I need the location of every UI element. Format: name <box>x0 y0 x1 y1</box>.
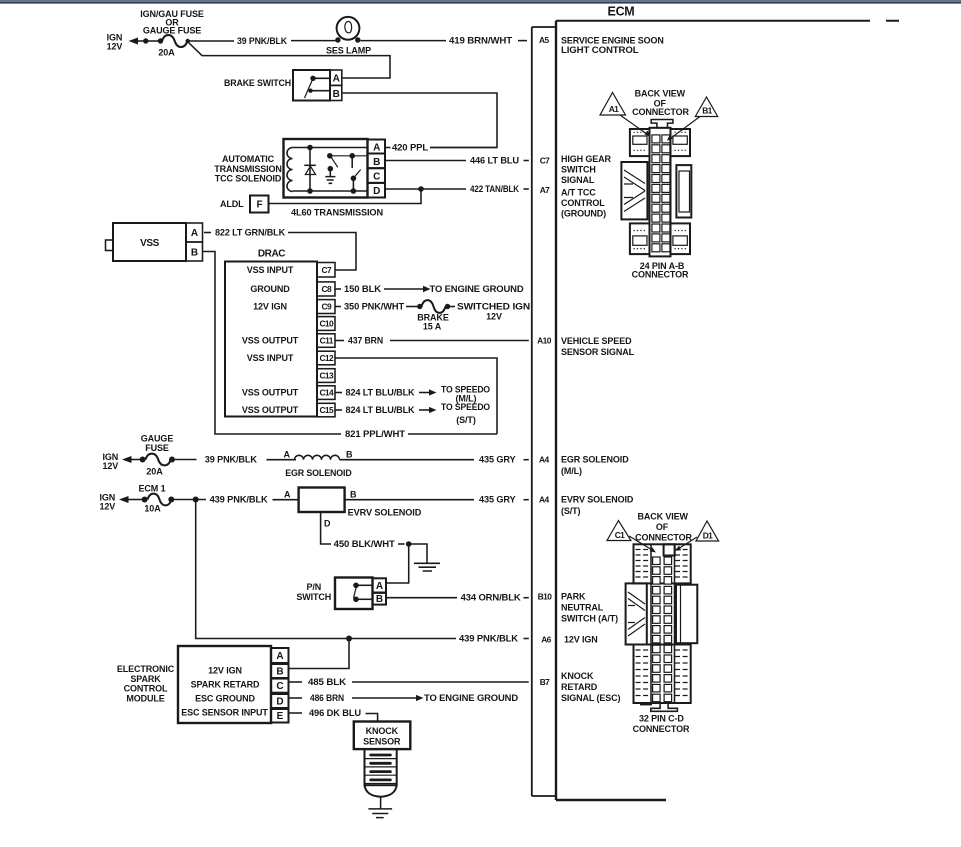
svg-text:B10: B10 <box>538 592 553 602</box>
upper right lock block <box>671 129 691 156</box>
svg-text:GROUND: GROUND <box>250 284 290 294</box>
svg-text:B: B <box>276 667 283 678</box>
TCC internal B rail <box>333 155 368 157</box>
svg-text:824 LT BLU/BLK: 824 LT BLU/BLK <box>346 405 416 415</box>
fuse BRAKE 15A <box>417 304 422 309</box>
svg-text:C7: C7 <box>540 156 550 166</box>
callout triangle C1 <box>607 521 631 541</box>
svg-text:A/T TCC: A/T TCC <box>561 188 596 198</box>
P/N pin B <box>373 593 387 605</box>
wire fuse to junction <box>174 499 206 501</box>
svg-text:486 BRN: 486 BRN <box>310 693 344 703</box>
svg-text:(GROUND): (GROUND) <box>561 208 606 218</box>
svg-text:TO ENGINE GROUND: TO ENGINE GROUND <box>424 693 519 703</box>
svg-text:C15: C15 <box>319 405 334 415</box>
junction dot A6 row <box>346 636 352 642</box>
svg-text:AUTOMATIC: AUTOMATIC <box>222 154 275 164</box>
wire C12 loop to 821 <box>336 358 498 434</box>
svg-text:EVRV SOLENOID: EVRV SOLENOID <box>561 495 634 505</box>
svg-text:822 LT GRN/BLK: 822 LT GRN/BLK <box>215 227 286 237</box>
svg-text:C8: C8 <box>321 284 331 294</box>
svg-text:BACK VIEW: BACK VIEW <box>637 512 688 522</box>
leader line D1 <box>678 537 697 549</box>
DRAC pin C10 <box>317 317 335 331</box>
ESC pin C <box>271 679 289 693</box>
svg-text:C9: C9 <box>321 302 331 312</box>
EVRV solenoid box <box>299 488 345 513</box>
wire TCC D to A7 <box>386 188 467 190</box>
svg-text:SWITCH: SWITCH <box>296 592 331 602</box>
arrow <box>119 496 129 503</box>
svg-text:PARK: PARK <box>561 592 586 602</box>
svg-text:RETARD: RETARD <box>561 682 598 692</box>
wire fuse to label <box>175 459 197 461</box>
ESC pin A <box>271 648 289 663</box>
TCC pin D <box>368 183 386 198</box>
svg-text:VSS INPUT: VSS INPUT <box>247 353 294 363</box>
svg-text:DRAC: DRAC <box>258 249 285 260</box>
svg-text:ESC GROUND: ESC GROUND <box>195 694 255 704</box>
D tick 486 <box>289 697 302 699</box>
center column (32 pin) <box>651 544 675 703</box>
svg-text:OF: OF <box>656 522 669 532</box>
wire junction to ESC B <box>290 639 350 669</box>
leader line B1 <box>669 117 700 140</box>
wire VSS B to 821 <box>203 252 341 435</box>
wire to EVRV box <box>273 499 299 501</box>
fuse IGN/GAU 20A <box>162 35 187 47</box>
ECM bottom edge <box>556 799 666 801</box>
connector center column <box>650 128 671 257</box>
svg-text:C11: C11 <box>320 336 334 346</box>
tick VSS A <box>204 232 211 234</box>
wire 450 to ground <box>409 544 427 563</box>
svg-text:435 GRY: 435 GRY <box>479 455 516 465</box>
junction dot 422 <box>418 186 424 192</box>
svg-text:D1: D1 <box>703 531 713 541</box>
svg-text:485 BLK: 485 BLK <box>308 677 347 687</box>
C8 tick <box>336 288 342 290</box>
wire 486 BRN to engine ground <box>352 697 416 699</box>
wire EGR to A4 <box>340 459 475 461</box>
svg-text:439 PNK/BLK: 439 PNK/BLK <box>210 494 269 504</box>
svg-text:SWITCH: SWITCH <box>561 165 596 175</box>
svg-text:P/N: P/N <box>306 582 321 592</box>
leader line A1 <box>620 115 649 136</box>
D1 polarizing pin <box>664 544 675 555</box>
svg-text:BACK VIEW: BACK VIEW <box>635 88 686 98</box>
svg-text:435 GRY: 435 GRY <box>479 495 516 505</box>
svg-text:KNOCK: KNOCK <box>366 726 399 736</box>
wire brake switch B to 420 PPL <box>343 93 498 148</box>
svg-text:(S/T): (S/T) <box>456 415 476 425</box>
tick 435 EVRV <box>524 499 529 501</box>
svg-text:TO SPEEDO: TO SPEEDO <box>441 402 490 412</box>
DRAC pin C11 <box>317 334 335 348</box>
svg-text:12V: 12V <box>103 461 119 471</box>
svg-text:SIGNAL: SIGNAL <box>561 175 595 185</box>
svg-text:(S/T): (S/T) <box>561 506 581 516</box>
upper left lock block <box>630 129 650 156</box>
DRAC box <box>225 262 317 417</box>
svg-text:VSS OUTPUT: VSS OUTPUT <box>242 405 299 415</box>
ECM top edge <box>556 20 899 22</box>
svg-text:CONNECTOR: CONNECTOR <box>633 724 690 734</box>
svg-text:B: B <box>350 490 357 500</box>
connector top tab <box>651 120 673 128</box>
svg-text:450 BLK/WHT: 450 BLK/WHT <box>334 539 396 549</box>
svg-text:ALDL: ALDL <box>220 199 244 209</box>
wire fuse to label <box>189 40 234 42</box>
svg-text:SENSOR: SENSOR <box>363 737 401 747</box>
svg-text:A4: A4 <box>539 455 549 465</box>
upper shell with dashed seals <box>634 544 691 583</box>
svg-text:SIGNAL (ESC): SIGNAL (ESC) <box>561 693 621 703</box>
wire EVRV to A4 <box>345 499 474 501</box>
svg-text:446 LT BLU: 446 LT BLU <box>470 155 519 165</box>
svg-text:D: D <box>324 519 331 529</box>
wire TCC A tick <box>386 147 391 149</box>
svg-text:CONTROL: CONTROL <box>561 198 605 208</box>
wire to EGR coil <box>267 459 297 461</box>
tick 419 to A5 <box>518 40 527 42</box>
DRAC pin C14 <box>317 386 335 400</box>
svg-text:ESC SENSOR INPUT: ESC SENSOR INPUT <box>181 708 268 718</box>
svg-text:SES LAMP: SES LAMP <box>326 46 371 56</box>
junction dots row1 <box>143 38 148 43</box>
C11 tick <box>336 340 345 342</box>
VSS pin A <box>186 223 203 242</box>
knock sensor cup <box>365 785 397 797</box>
tick 439 A6 <box>524 638 529 640</box>
svg-text:A1: A1 <box>609 104 619 114</box>
C tick 485 <box>289 681 302 683</box>
svg-text:20A: 20A <box>158 48 175 58</box>
TCC solenoid box <box>284 139 368 198</box>
svg-text:A: A <box>373 142 380 153</box>
mid right wing block <box>676 585 697 644</box>
svg-text:496 DK BLU: 496 DK BLU <box>309 708 361 718</box>
arrow to speedo M/L <box>419 392 429 394</box>
svg-text:SWITCH (A/T): SWITCH (A/T) <box>561 614 618 624</box>
svg-text:15 A: 15 A <box>423 321 442 331</box>
svg-text:EGR SOLENOID: EGR SOLENOID <box>561 455 629 465</box>
svg-text:HIGH GEAR: HIGH GEAR <box>561 154 612 164</box>
svg-text:C1: C1 <box>615 530 625 540</box>
svg-text:350 PNK/WHT: 350 PNK/WHT <box>344 301 405 311</box>
svg-text:B: B <box>191 247 198 258</box>
wire 821 right segment <box>408 433 497 435</box>
ESC pin B <box>271 664 289 678</box>
TCC diode <box>309 148 311 192</box>
tick 446 to C7 <box>524 160 529 162</box>
knock sensor body <box>365 749 397 785</box>
svg-text:GAUGE FUSE: GAUGE FUSE <box>143 26 201 36</box>
svg-text:B: B <box>346 450 353 460</box>
mid right wing block <box>676 165 691 217</box>
wire 437 BRN to A10 <box>390 340 529 342</box>
svg-text:NEUTRAL: NEUTRAL <box>561 603 604 613</box>
svg-text:12V: 12V <box>486 312 502 322</box>
svg-text:E: E <box>277 711 284 722</box>
svg-text:B: B <box>333 89 340 100</box>
top toolbar bar <box>0 0 961 2</box>
wire 422 junction to ALDL F <box>269 189 421 204</box>
arrow <box>122 456 132 463</box>
pin squares (32 pin) <box>653 557 672 702</box>
DRAC pin C7 <box>317 263 335 278</box>
svg-text:KNOCK: KNOCK <box>561 671 594 681</box>
svg-text:MODULE: MODULE <box>126 693 164 703</box>
svg-text:EVRV SOLENOID: EVRV SOLENOID <box>348 508 422 518</box>
lower right lock block <box>671 223 691 254</box>
svg-text:ECM 1: ECM 1 <box>139 484 166 494</box>
svg-text:A: A <box>376 581 383 592</box>
svg-text:CONTROL: CONTROL <box>124 684 168 694</box>
fuse ECM 1 10A <box>142 497 148 503</box>
svg-text:SPARK RETARD: SPARK RETARD <box>191 680 260 690</box>
svg-text:LIGHT CONTROL: LIGHT CONTROL <box>561 45 639 55</box>
DRAC pin C9 <box>317 300 335 314</box>
TCC pin A <box>368 140 386 154</box>
junction dot 450 <box>406 541 412 547</box>
wire EVRV D down <box>321 512 331 544</box>
wire 822 to DRAC C7 <box>288 233 356 271</box>
svg-text:150 BLK: 150 BLK <box>344 284 382 294</box>
callout triangle D1 <box>696 521 719 541</box>
wire TCC B to C7 <box>386 160 467 162</box>
C15 tick <box>336 409 343 411</box>
svg-text:20A: 20A <box>146 466 163 476</box>
svg-text:A: A <box>284 450 291 460</box>
svg-text:A: A <box>276 651 283 662</box>
TCC internal bottom rail <box>293 190 368 192</box>
svg-text:A10: A10 <box>537 336 552 346</box>
svg-text:C13: C13 <box>319 371 334 381</box>
svg-text:437 BRN: 437 BRN <box>348 335 383 345</box>
E tick 496 <box>289 712 302 714</box>
svg-text:VSS OUTPUT: VSS OUTPUT <box>242 388 299 398</box>
ESC pin D <box>271 694 289 708</box>
svg-text:B1: B1 <box>702 106 712 116</box>
svg-text:EGR SOLENOID: EGR SOLENOID <box>285 468 352 478</box>
mid left wing block <box>626 583 647 644</box>
svg-text:F: F <box>256 199 262 210</box>
knock sensor label box <box>354 722 411 750</box>
svg-text:C10: C10 <box>319 319 334 329</box>
svg-text:821 PPL/WHT: 821 PPL/WHT <box>345 429 406 439</box>
svg-text:A6: A6 <box>541 635 551 645</box>
knock sensor ground <box>380 797 382 809</box>
lower shell with dashed seals <box>634 645 691 704</box>
wire 485 BLK to B7 <box>352 681 529 683</box>
svg-text:420 PPL: 420 PPL <box>392 142 429 152</box>
svg-text:12V: 12V <box>107 41 123 51</box>
TCC switch to ground <box>327 153 333 159</box>
svg-text:(M/L): (M/L) <box>561 466 582 476</box>
tick 434 <box>524 597 529 599</box>
TCC pin C <box>368 168 386 183</box>
svg-text:439 PNK/BLK: 439 PNK/BLK <box>459 633 519 643</box>
svg-text:39 PNK/BLK: 39 PNK/BLK <box>205 454 258 464</box>
wire junction down and across to A6 <box>196 500 456 639</box>
svg-text:C7: C7 <box>321 265 331 275</box>
svg-text:GAUGE: GAUGE <box>141 433 174 443</box>
svg-text:12V IGN: 12V IGN <box>208 666 242 676</box>
wire 420 PPL <box>430 147 497 149</box>
svg-text:TCC SOLENOID: TCC SOLENOID <box>215 173 282 183</box>
svg-text:B7: B7 <box>540 677 550 687</box>
svg-text:824 LT BLU/BLK: 824 LT BLU/BLK <box>346 387 416 397</box>
svg-text:10A: 10A <box>144 504 161 514</box>
P/N switch box <box>335 578 373 610</box>
svg-text:VSS INPUT: VSS INPUT <box>247 265 294 275</box>
svg-text:SENSOR SIGNAL: SENSOR SIGNAL <box>561 347 635 357</box>
TCC output switch <box>349 153 355 159</box>
svg-text:D: D <box>276 697 283 708</box>
wire 450 to P/N A <box>386 544 409 583</box>
arrow to IGN 12V <box>129 38 139 45</box>
svg-text:D: D <box>373 186 380 197</box>
fuse GAUGE 20A <box>140 457 146 463</box>
svg-text:A7: A7 <box>540 185 550 195</box>
EGR solenoid coil <box>295 455 340 459</box>
label switched ign 12V <box>450 306 455 308</box>
svg-text:C: C <box>373 172 380 183</box>
C9 tick <box>336 306 342 308</box>
SES lamp <box>337 17 360 40</box>
DRAC pin C13 <box>317 369 335 383</box>
wire lamp to label 419 <box>361 40 447 42</box>
svg-text:12V: 12V <box>100 502 116 512</box>
DRAC pin C15 <box>317 403 335 417</box>
svg-text:4L60 TRANSMISSION: 4L60 TRANSMISSION <box>291 208 383 218</box>
svg-text:A: A <box>284 490 291 500</box>
junction dot 439 <box>193 497 199 503</box>
callout triangle A1 <box>600 93 626 116</box>
ECM left edge <box>555 21 557 800</box>
svg-text:SERVICE ENGINE SOON: SERVICE ENGINE SOON <box>561 36 664 46</box>
svg-text:A: A <box>191 228 198 239</box>
svg-text:TO ENGINE GROUND: TO ENGINE GROUND <box>430 284 525 294</box>
ECM pin strip <box>532 27 556 796</box>
C14 tick <box>336 392 343 394</box>
callout triangle B1 <box>695 97 717 117</box>
ESC module box <box>178 646 271 723</box>
wire 350 to brake fuse <box>406 306 418 308</box>
svg-text:32 PIN C-D: 32 PIN C-D <box>639 714 684 724</box>
svg-text:A5: A5 <box>539 35 549 45</box>
tick 422 to A7 <box>524 188 529 190</box>
svg-text:VSS OUTPUT: VSS OUTPUT <box>242 336 299 346</box>
DRAC pin C12 <box>317 351 335 365</box>
tick 435 EGR <box>524 459 529 461</box>
svg-text:39 PNK/BLK: 39 PNK/BLK <box>237 36 288 46</box>
svg-text:422 TAN/BLK: 422 TAN/BLK <box>470 184 520 194</box>
svg-text:C12: C12 <box>319 353 334 363</box>
leader line C1 <box>629 536 653 551</box>
wire label to lamp <box>291 40 338 42</box>
ground symbol (450) <box>414 563 440 571</box>
P/N pin A <box>373 578 387 592</box>
svg-text:CONNECTOR: CONNECTOR <box>632 269 689 279</box>
svg-text:FUSE: FUSE <box>145 443 169 453</box>
svg-text:CONNECTOR: CONNECTOR <box>635 532 692 542</box>
wire P/N B to B10 <box>386 597 457 599</box>
arrow to speedo S/T <box>419 409 429 411</box>
svg-text:VSS: VSS <box>140 238 160 249</box>
svg-text:CONNECTOR: CONNECTOR <box>632 107 689 117</box>
lower left lock block <box>630 223 650 254</box>
P/N contacts <box>353 583 359 589</box>
svg-text:434 ORN/BLK: 434 ORN/BLK <box>461 593 522 603</box>
ESC pin E <box>271 709 289 723</box>
wire 496 to knock sensor <box>366 714 378 722</box>
svg-text:B: B <box>376 594 383 605</box>
TCC coil <box>287 148 293 192</box>
svg-text:A4: A4 <box>539 495 549 505</box>
svg-text:BRAKE SWITCH: BRAKE SWITCH <box>224 78 291 88</box>
svg-text:SWITCHED IGN: SWITCHED IGN <box>457 301 530 311</box>
svg-text:A: A <box>333 74 340 85</box>
svg-text:SPARK: SPARK <box>130 674 161 684</box>
svg-text:C14: C14 <box>319 388 334 398</box>
svg-text:12V IGN: 12V IGN <box>564 635 598 645</box>
svg-text:VEHICLE SPEED: VEHICLE SPEED <box>561 336 632 346</box>
VSS pin B <box>186 242 203 261</box>
wire fuse diagonal to brake switch A <box>189 43 391 79</box>
svg-text:ELECTRONIC: ELECTRONIC <box>117 664 175 674</box>
svg-text:B: B <box>373 157 380 168</box>
svg-text:12V IGN: 12V IGN <box>253 302 287 312</box>
bottom tab <box>651 703 678 711</box>
svg-text:419 BRN/WHT: 419 BRN/WHT <box>449 35 513 45</box>
mid left wing block <box>621 162 647 219</box>
TCC internal top rail <box>293 147 368 149</box>
DRAC pin C8 <box>317 282 335 296</box>
tick 450 <box>398 543 405 545</box>
VSS sensor <box>113 223 186 261</box>
svg-text:ECM: ECM <box>608 5 635 19</box>
TCC pin B <box>368 154 386 169</box>
wire 150 BLK to engine ground <box>384 288 423 290</box>
svg-text:C: C <box>276 681 283 692</box>
pin squares left column <box>652 135 670 252</box>
